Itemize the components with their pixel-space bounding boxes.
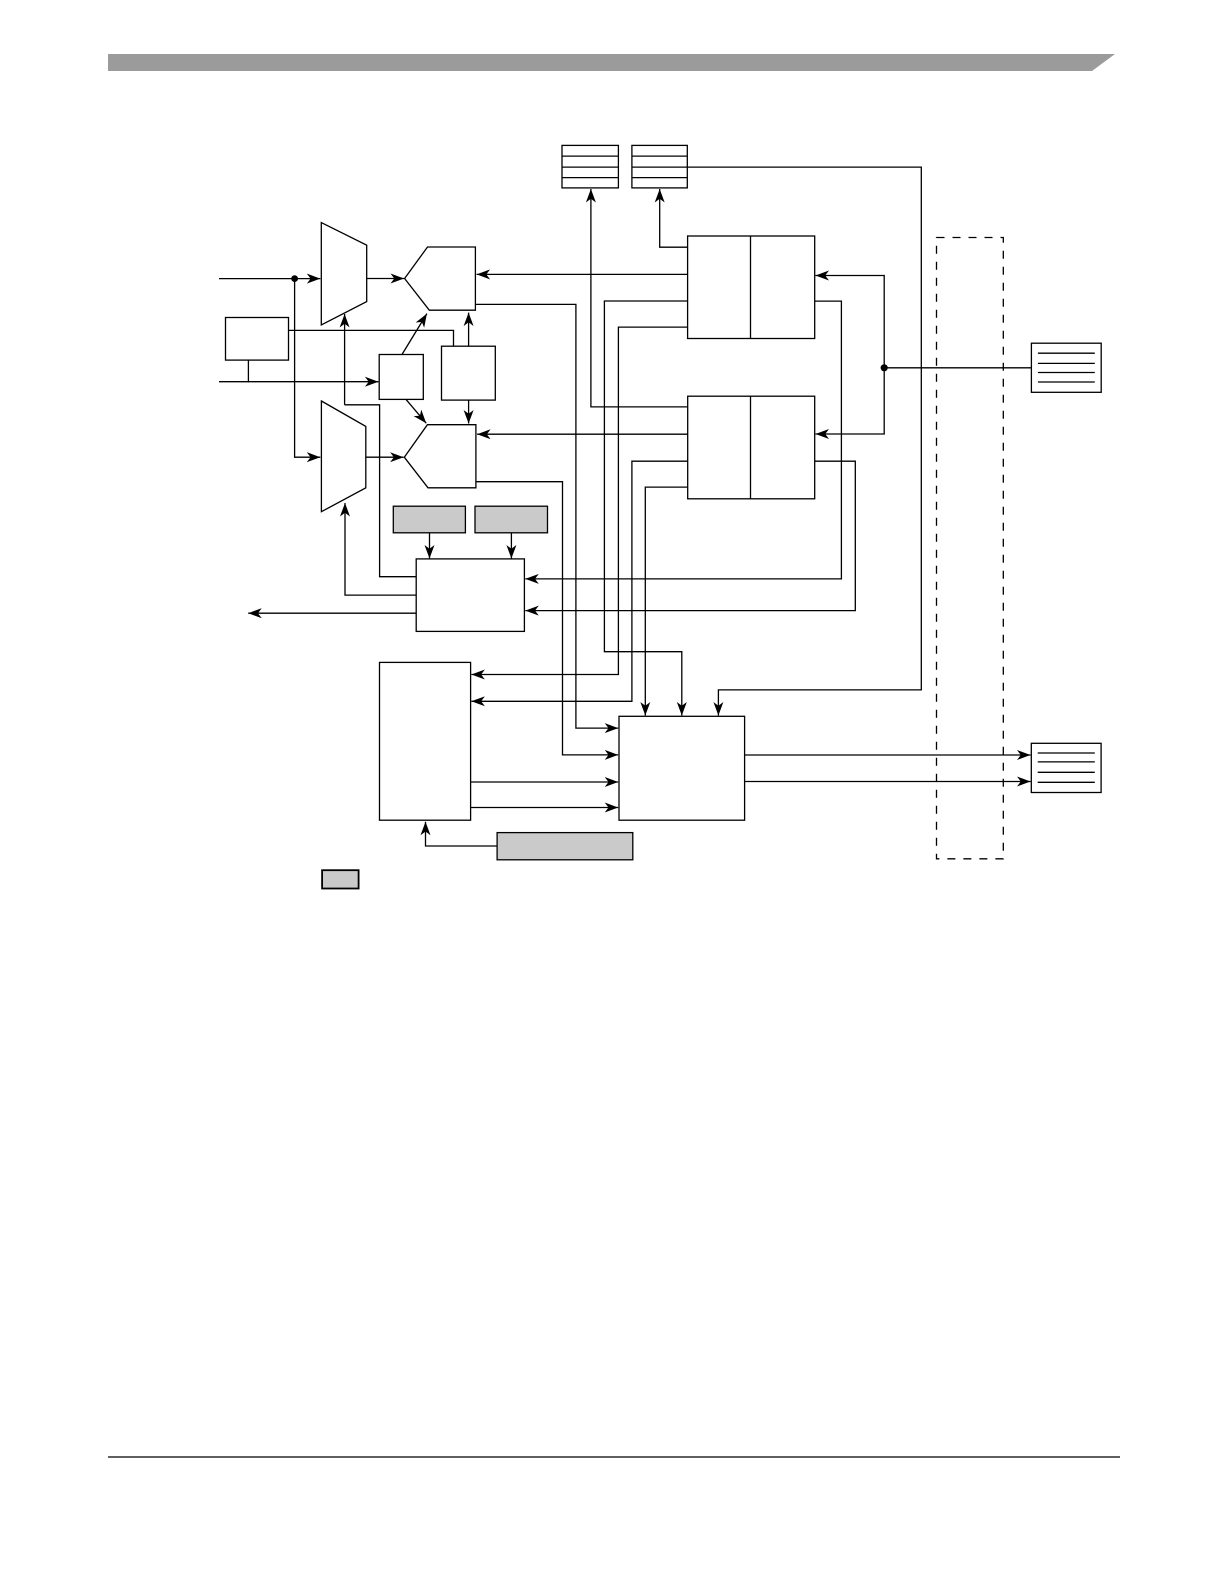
wire: clock box stub down to system clock line [247, 360, 249, 382]
wire: tall block out 1 to big control block [471, 781, 619, 783]
wire: comparator A output down to big control block [475, 304, 618, 728]
mux M1 (time base selector, top) [321, 223, 366, 325]
wire: mux M1 output to comparator A [367, 278, 404, 280]
header bar [108, 54, 1115, 71]
wire: system clock input (left) into prescaler [219, 381, 378, 383]
tall status/control block [380, 662, 471, 820]
wire: mux M1 select (vertical through clock line) [344, 314, 346, 405]
gray request box A [393, 506, 465, 533]
wire: bus interface to tall block [426, 822, 498, 846]
wire: feedback from output box to mux select node [345, 405, 417, 577]
wire: junction down to mux M2 input [295, 279, 321, 458]
wire: stack 2 out right, down, into big control block [687, 167, 921, 715]
gray bus interface box (bottom) [497, 833, 633, 860]
wire: big control block out 1 to shadow register (lower right) [745, 754, 1031, 756]
wire: counter bus A input (left, into mux M1) with junction [219, 278, 320, 280]
shadow register (lower right) [1031, 743, 1101, 792]
wire: clock box output to counter bus select box [289, 330, 454, 346]
legend gray box [322, 870, 359, 888]
wire: internal bus from dot down into register B right side [816, 368, 885, 434]
wire: register A out down to big control block (jog) [604, 301, 687, 716]
gray request box B [475, 506, 548, 533]
wire: register B right jog down to output box [525, 461, 855, 610]
register B pair box (B1/B2) [688, 396, 815, 499]
prescaler box [379, 355, 423, 400]
wire: register B to comparator B input [477, 433, 688, 435]
wire: feedback from output box to mux M2 select [345, 503, 416, 595]
footer rule [108, 1456, 1120, 1458]
wire: request B down to output box [510, 533, 512, 559]
wire: prescaler diagonal up to comparator A [402, 314, 427, 355]
big control block [619, 716, 745, 820]
wire: big control block out 2 to shadow register (lower right) [745, 781, 1031, 783]
wire: select box down to comparator B [468, 400, 470, 423]
wire: request A down to output box [429, 533, 431, 559]
shadow register (upper right) [1031, 343, 1101, 392]
wire: dot to shadow register (right) [884, 367, 1031, 369]
wire: tall block out 2 to big control block [471, 807, 619, 809]
comparator B (pentagon, bottom) [404, 425, 476, 488]
wire: register B out down to big control block [645, 487, 687, 715]
wire: prescaler diagonal down to comparator B [406, 399, 426, 423]
wire: register A to stack 2 [660, 189, 688, 247]
dashed module boundary [937, 238, 1004, 859]
wire: internal bus from dot up into register A right side [816, 276, 885, 368]
counter bus select box [442, 346, 496, 400]
wire: comparator B output down to big control block [476, 482, 618, 755]
comparator A (pentagon, top) [405, 247, 476, 310]
node: junction dot on internal bus [881, 364, 888, 371]
register A pair box (A1/A2) [688, 236, 815, 339]
register stack 2 (top) [632, 145, 687, 188]
wire: mux M2 output to comparator B [366, 456, 404, 458]
wire: register B out to tall status block [471, 461, 687, 701]
register stack 1 (top) [562, 145, 618, 188]
node: junction dot on bus A input [291, 275, 298, 282]
wire: select box up to comparator A [468, 313, 470, 347]
wire: register A right jog down to output box [525, 301, 841, 579]
mux M2 (time base selector, bottom) [321, 401, 365, 512]
wire: register A out to tall status block [471, 327, 687, 674]
clock box (prescaler clock) [226, 318, 289, 361]
wire: output signal to pin (arrow left) [248, 612, 416, 614]
output flip-flop box [416, 559, 524, 632]
wire: register A to comparator A input [477, 273, 688, 275]
wire: register B to stack 1 [591, 189, 688, 407]
